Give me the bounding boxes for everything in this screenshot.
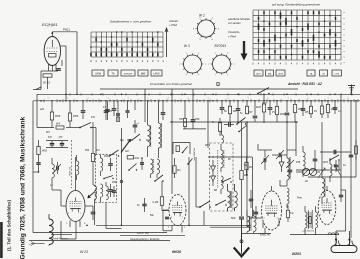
wire y230 stub bbox=[162, 210, 164, 231]
resistor R2 bbox=[51, 101, 53, 112]
cap C30 at V5 bbox=[339, 194, 343, 196]
wire x77 down bbox=[76, 32, 78, 95]
switch lever S8 bbox=[110, 150, 119, 156]
antenna symbol top right bbox=[351, 85, 353, 94]
output transformer core bbox=[307, 210, 309, 229]
svg-text:MW: MW bbox=[141, 72, 146, 76]
stub x230 bbox=[229, 101, 231, 106]
svg-text:7: 7 bbox=[227, 75, 228, 77]
svg-text:W4: W4 bbox=[56, 122, 60, 126]
svg-text:a22: a22 bbox=[40, 108, 45, 111]
svg-text:P601: P601 bbox=[63, 28, 70, 32]
svg-text:UKW: UKW bbox=[95, 72, 102, 76]
svg-text:zum UKW-Teil: zum UKW-Teil bbox=[194, 147, 196, 161]
antenna caption bbox=[51, 233, 72, 235]
coil L16 bbox=[95, 186, 97, 199]
T1 primary coil bbox=[100, 155, 102, 158]
switch S9 bbox=[222, 178, 231, 182]
stub x238 bbox=[237, 101, 239, 108]
svg-text:1: 1 bbox=[287, 98, 288, 100]
switch S4 levers bbox=[132, 134, 140, 140]
capacitor C34 bbox=[112, 190, 116, 192]
svg-text:7: 7 bbox=[215, 53, 216, 55]
output transformer T4 bbox=[305, 212, 307, 228]
phase splitter coil T3 primary bbox=[322, 178, 324, 197]
svg-text:P60: P60 bbox=[112, 181, 117, 184]
bottom wire 3 bbox=[29, 240, 170, 242]
svg-text:TA: TA bbox=[111, 72, 114, 76]
svg-text:2: 2 bbox=[171, 217, 172, 219]
detector coil L14 bbox=[222, 135, 224, 143]
svg-text:Vorwärts-: Vorwärts- bbox=[228, 30, 240, 34]
svg-text:Gegenkopplung v. Endstufe: Gegenkopplung v. Endstufe bbox=[130, 238, 160, 241]
cap C25 bbox=[249, 198, 253, 200]
stub x163 bbox=[162, 101, 164, 112]
switch S5 top lever bbox=[258, 88, 269, 94]
tone switch S7 bbox=[330, 155, 339, 160]
capacitor C10 bbox=[254, 101, 256, 115]
svg-text:LANG: LANG bbox=[153, 73, 159, 76]
fuse bead bbox=[240, 240, 243, 243]
loop lever bbox=[183, 147, 188, 153]
svg-text:W05: W05 bbox=[42, 150, 48, 153]
tube V4 envelope EABC80 bbox=[262, 191, 282, 230]
coil L8 bbox=[228, 191, 231, 208]
trimmer C27 bbox=[278, 153, 280, 157]
wire x121 down bbox=[121, 128, 123, 225]
wafer W3 bbox=[184, 55, 202, 73]
svg-text:1: 1 bbox=[327, 98, 328, 100]
svg-text:1: 1 bbox=[87, 98, 88, 100]
svg-text:4: 4 bbox=[193, 28, 194, 30]
wire h150 right bbox=[287, 149, 296, 151]
coil L12 bbox=[287, 188, 289, 204]
wire stub bbox=[61, 60, 63, 66]
svg-text:FM: FM bbox=[96, 149, 99, 152]
svg-text:7: 7 bbox=[215, 75, 216, 77]
wire x204 down bbox=[203, 211, 205, 225]
capacitor C21 bbox=[113, 101, 115, 108]
tuning gang arrow bbox=[121, 140, 130, 153]
svg-text:auf ausg. Gerätestellung gezei: auf ausg. Gerätestellung gezeichnet bbox=[272, 3, 320, 7]
wire x145 top bbox=[144, 89, 146, 122]
svg-text:50n: 50n bbox=[150, 214, 155, 217]
svg-text:W 22: W 22 bbox=[43, 81, 50, 85]
svg-text:W03: W03 bbox=[280, 112, 286, 116]
res R21 bbox=[246, 157, 248, 162]
T1 primary cap bbox=[108, 163, 113, 165]
UKW box boundary bbox=[71, 140, 73, 188]
svg-text:7: 7 bbox=[179, 64, 180, 66]
resistor R25 bbox=[287, 205, 289, 210]
capacitor C8 bbox=[192, 89, 194, 119]
ratio det coil L7 bbox=[221, 176, 223, 189]
resistor W22 bbox=[43, 74, 52, 77]
svg-text:4: 4 bbox=[212, 18, 213, 20]
terminal arrow bbox=[36, 87, 41, 90]
pushbutton Langwelle bbox=[151, 70, 162, 76]
wire x257 bbox=[256, 176, 258, 218]
wire h177 bbox=[308, 176, 356, 178]
cap C29 right rail bbox=[350, 149, 352, 151]
capacitor C3 bbox=[95, 128, 97, 155]
capacitor C22 near tube V2 bbox=[91, 211, 96, 213]
svg-text:6HO8: 6HO8 bbox=[172, 250, 181, 254]
svg-text:Schalterebene v. vorn gesehen: Schalterebene v. vorn gesehen bbox=[110, 20, 152, 24]
wire x196 down bbox=[195, 157, 197, 207]
switch matrix S1 contacts bbox=[95, 38, 97, 42]
capacitor C33 bbox=[36, 162, 40, 164]
svg-text:AM: AM bbox=[125, 150, 129, 153]
wire x208 bbox=[207, 101, 209, 148]
wire x296 down bbox=[295, 122, 297, 150]
speaker wire bbox=[290, 234, 339, 236]
svg-text:EC(H)81: EC(H)81 bbox=[42, 22, 58, 27]
resistor R10 bbox=[276, 101, 278, 106]
svg-text:Grundig 7025, 7058 und 7068, M: Grundig 7025, 7058 und 7068, Musikschran… bbox=[20, 116, 27, 259]
ground arrow bbox=[241, 219, 243, 254]
svg-text:1: 1 bbox=[207, 98, 208, 100]
button CE bbox=[320, 70, 328, 76]
wire x128 seg bbox=[127, 101, 129, 110]
capacitor C20 bbox=[105, 101, 107, 110]
svg-text:BV7043: BV7043 bbox=[215, 44, 227, 48]
resistor R8 bbox=[241, 122, 243, 170]
wire V5 connections bbox=[317, 204, 319, 210]
wire x356 bbox=[355, 101, 357, 177]
wire x90 down bbox=[92, 122, 94, 153]
svg-text:W22: W22 bbox=[135, 158, 140, 160]
feedback loop box bbox=[173, 143, 190, 155]
wire h170 bbox=[296, 169, 341, 171]
trimmer C24 bbox=[264, 150, 266, 157]
left page edge mark bbox=[0, 222, 3, 258]
svg-text:2: 2 bbox=[68, 213, 69, 215]
T1 secondary cap bbox=[108, 189, 113, 191]
resistor R30 box bbox=[127, 156, 133, 159]
coil L15 bbox=[76, 155, 78, 161]
bus tick marks upper bbox=[69, 93, 71, 95]
svg-text:7: 7 bbox=[205, 64, 206, 66]
svg-text:1: 1 bbox=[167, 98, 168, 100]
diode D1 bbox=[211, 166, 216, 171]
resistor R5 bbox=[91, 154, 94, 162]
svg-text:1: 1 bbox=[127, 98, 128, 100]
wire x345 down bbox=[345, 177, 347, 238]
svg-text:W 3: W 3 bbox=[184, 44, 190, 48]
bottom return wire 2 bbox=[33, 232, 167, 234]
resistor R6 0.1M bbox=[161, 181, 163, 197]
wire x322 up bbox=[321, 122, 323, 170]
svg-text:P25: P25 bbox=[296, 161, 301, 164]
switch lever S12 bbox=[200, 201, 210, 207]
cap C28 bbox=[334, 164, 338, 166]
wire x345 bbox=[345, 190, 347, 231]
wire x265 horiz bbox=[258, 149, 272, 151]
tube V2 pins bbox=[75, 157, 77, 191]
svg-text:Ferrit-Antenne: Ferrit-Antenne bbox=[53, 237, 69, 240]
tube V3 pins bbox=[177, 193, 179, 196]
svg-text:7: 7 bbox=[208, 64, 209, 66]
svg-text:4: 4 bbox=[199, 39, 200, 41]
svg-text:KURZW: KURZW bbox=[124, 74, 133, 76]
pushbutton UKW bbox=[92, 70, 104, 76]
bottom wire 3a bbox=[120, 235, 185, 237]
bus tick marks bbox=[43, 99, 45, 102]
dial lamp loop bbox=[105, 203, 107, 229]
IF transformer T2 primary bbox=[151, 159, 154, 174]
switch S10 lever bbox=[129, 164, 137, 171]
variable block pair bbox=[302, 168, 309, 175]
capacitor C31 bbox=[142, 203, 146, 205]
direction arrow down bbox=[243, 41, 245, 55]
tube V5 envelope EL84 bbox=[318, 191, 336, 225]
trim capacitor C4 bbox=[56, 166, 58, 171]
capacitor C23 bbox=[165, 216, 169, 218]
pushbutton Kurzwelle bbox=[121, 70, 135, 76]
svg-text:sämtliche Schalter: sämtliche Schalter bbox=[228, 17, 250, 21]
switch matrix S2 grid bbox=[252, 10, 254, 60]
lever S13 bbox=[188, 159, 193, 165]
wire x251 bbox=[250, 190, 252, 194]
button AUT bbox=[254, 70, 263, 76]
svg-text:7: 7 bbox=[331, 215, 332, 217]
res R22 bbox=[354, 146, 357, 154]
wire to tube V2 bbox=[52, 189, 61, 191]
switch lever S3 bbox=[80, 123, 91, 128]
tube V1 envelope bbox=[44, 37, 60, 66]
wire x247 bbox=[246, 122, 248, 157]
svg-text:7: 7 bbox=[182, 217, 183, 219]
grid wire cap row bbox=[320, 151, 351, 153]
tube V2 envelope ECC85 bbox=[66, 191, 85, 222]
speaker LS1 terminals bbox=[335, 231, 337, 246]
matrix S2 junction dots bbox=[263, 20, 265, 22]
trimmer cap C5b bbox=[117, 101, 119, 113]
capacitor C11 bbox=[286, 101, 288, 112]
tube V4 cathode wires bbox=[264, 228, 266, 233]
treble cap C13 bbox=[288, 169, 293, 171]
svg-text:W 23: W 23 bbox=[80, 250, 88, 254]
stub x222 bbox=[221, 101, 223, 107]
svg-text:1: 1 bbox=[247, 98, 248, 100]
svg-text:W47: W47 bbox=[262, 102, 268, 105]
coil block L13 bbox=[330, 164, 332, 176]
resistor R26 bbox=[174, 158, 176, 165]
svg-text:500: 500 bbox=[231, 216, 236, 220]
svg-text:470: 470 bbox=[91, 116, 96, 119]
svg-text:2: 2 bbox=[264, 218, 265, 220]
wafer BV7043 bbox=[213, 55, 231, 73]
resistor R11 bbox=[294, 101, 296, 104]
cathode wires bbox=[48, 64, 50, 71]
wire h218 bbox=[250, 217, 262, 219]
arrow trimmer bbox=[318, 168, 325, 178]
svg-text:CE: CE bbox=[322, 74, 326, 76]
pushbutton Mittelwelle bbox=[138, 70, 148, 76]
svg-text:AUT: AUT bbox=[256, 73, 261, 76]
detector can bbox=[210, 143, 234, 211]
svg-text:40p: 40p bbox=[120, 139, 125, 142]
bottom wire junctions bbox=[121, 225, 123, 227]
svg-text:W25: W25 bbox=[323, 161, 329, 164]
wire h129 bbox=[183, 128, 206, 130]
wire x37 bbox=[36, 94, 38, 127]
svg-text:7: 7 bbox=[186, 53, 187, 55]
coil L9 bbox=[235, 191, 238, 208]
svg-text:zum Netzteil: zum Netzteil bbox=[301, 230, 315, 233]
tube V3 envelope EABC80 bbox=[169, 195, 186, 226]
svg-text:7: 7 bbox=[186, 75, 187, 77]
AF coil L10 bbox=[303, 152, 305, 170]
svg-text:W05: W05 bbox=[73, 114, 79, 118]
wire mid bus bbox=[170, 121, 298, 123]
capacitor C1 bbox=[56, 68, 61, 70]
svg-text:+ Pfeil: + Pfeil bbox=[228, 35, 236, 39]
svg-text:Ton: Ton bbox=[290, 212, 295, 215]
diode D3 bbox=[140, 162, 144, 164]
button TA2 bbox=[307, 70, 315, 76]
bus wire top bbox=[100, 88, 298, 90]
switch matrix S2 contacts bbox=[258, 17, 260, 20]
wire anode to HT bbox=[51, 32, 53, 37]
tube V2 pointer arrow bbox=[89, 192, 96, 198]
svg-text:0,1M: 0,1M bbox=[153, 200, 159, 204]
T1 secondary coil bbox=[101, 184, 103, 197]
IF output transformer bbox=[247, 216, 250, 232]
svg-text:7: 7 bbox=[198, 53, 199, 55]
res R23 bbox=[340, 122, 342, 128]
tube V2 base box bbox=[60, 221, 62, 239]
resistor R24 bbox=[219, 114, 221, 123]
svg-text:H48: H48 bbox=[195, 118, 200, 121]
tone cap C14 bbox=[313, 158, 318, 160]
left rail bbox=[32, 101, 34, 233]
bus wire heater bbox=[33, 100, 360, 102]
resistor R12 bbox=[327, 101, 329, 104]
T2 switch lever bbox=[155, 175, 163, 181]
svg-text:+ Pfeil: + Pfeil bbox=[169, 23, 177, 27]
wire x172 bbox=[171, 89, 173, 122]
wire h186 bbox=[280, 185, 287, 187]
switch levers S11 bbox=[237, 118, 246, 125]
padder caps C7 bbox=[133, 124, 138, 126]
tall coil L11 bbox=[286, 146, 288, 158]
T1 switch bbox=[104, 176, 113, 179]
resistor R4 horizontal bbox=[37, 127, 54, 129]
resistor R7 bbox=[184, 101, 186, 118]
IF transformer T2 secondary bbox=[157, 159, 160, 174]
diode D2 bbox=[211, 176, 216, 181]
svg-text:7: 7 bbox=[277, 218, 278, 220]
L8 L9 core bbox=[229, 191, 231, 208]
wire x335 down to V5 bbox=[334, 114, 336, 122]
more bus stubs right bbox=[302, 101, 304, 108]
svg-text:W203: W203 bbox=[292, 252, 301, 256]
bus junction dots bbox=[40, 100, 42, 102]
up arrow top right bbox=[350, 92, 352, 94]
switch S6 bbox=[216, 200, 226, 205]
bus wire B+ bbox=[37, 93, 360, 95]
svg-text:+: + bbox=[29, 243, 31, 247]
capacitor C2 bbox=[82, 101, 84, 110]
matrix S2 long contacts bbox=[258, 23, 260, 29]
coil L17 bbox=[106, 186, 108, 200]
svg-text:7: 7 bbox=[227, 53, 228, 55]
trimmer cap C5a bbox=[107, 101, 109, 109]
svg-text:UKW-Teil: UKW-Teil bbox=[69, 166, 71, 176]
IF transformer T1 can bbox=[96, 155, 117, 203]
wire x252 vertical bbox=[251, 122, 253, 157]
svg-text:H47: H47 bbox=[179, 118, 184, 121]
button LTW bbox=[332, 70, 342, 76]
wafer W2 bbox=[197, 20, 214, 37]
oscillator coil L5 bbox=[158, 101, 160, 123]
bottom return wire 1 bbox=[96, 224, 251, 226]
svg-text:(1. Teil des Schaltbildes): (1. Teil des Schaltbildes) bbox=[7, 200, 12, 251]
drive arrow up bbox=[166, 29, 168, 57]
wire x247 ext bbox=[246, 122, 248, 227]
switch matrix S1 grid bbox=[90, 32, 92, 57]
capacitor C32 bbox=[228, 122, 230, 127]
svg-text:1: 1 bbox=[47, 98, 48, 100]
svg-text:MA: MA bbox=[268, 73, 272, 76]
button MA bbox=[266, 70, 274, 76]
svg-text:von außen: von außen bbox=[228, 21, 241, 25]
resistor R9 bbox=[263, 94, 265, 103]
terminal P60 bbox=[120, 180, 123, 183]
wire x135 bbox=[134, 101, 136, 110]
ferrite antenna coil L3 bbox=[48, 214, 50, 219]
stub x270 bbox=[269, 101, 271, 107]
svg-text:7: 7 bbox=[234, 64, 235, 66]
diode D4 bbox=[279, 162, 284, 167]
ratio det coil L6 bbox=[221, 150, 223, 168]
coupling cap C12 bbox=[295, 150, 297, 156]
resistor R3 bbox=[69, 101, 71, 113]
wire h157 bbox=[208, 156, 252, 158]
button UKW2 bbox=[276, 70, 285, 76]
wire x252b bbox=[252, 157, 254, 218]
svg-text:W47: W47 bbox=[256, 105, 262, 109]
svg-text:EABC 80: EABC 80 bbox=[260, 233, 271, 236]
svg-text:P04: P04 bbox=[85, 149, 90, 152]
oscillator coil L4 bbox=[147, 101, 149, 125]
coil core dashes bbox=[217, 150, 219, 188]
svg-text:7: 7 bbox=[198, 75, 199, 77]
resistor R13 bbox=[321, 101, 323, 106]
svg-text:W05: W05 bbox=[55, 114, 61, 118]
volume pot P1 bbox=[289, 157, 291, 168]
T4 resistor bbox=[309, 217, 312, 224]
pushbutton TA bbox=[108, 70, 118, 76]
svg-text:4: 4 bbox=[212, 39, 213, 41]
stub x247 r bbox=[246, 101, 248, 106]
wire left branch bbox=[40, 71, 42, 87]
resistor R20 bbox=[100, 208, 102, 215]
wire h194 bbox=[313, 193, 322, 195]
svg-text:Ansicht · R41 E81 · A2: Ansicht · R41 E81 · A2 bbox=[287, 82, 322, 86]
svg-text:Umschalter von hinten gesehen: Umschalter von hinten gesehen bbox=[150, 82, 193, 86]
svg-text:4: 4 bbox=[199, 18, 200, 20]
wire x287 v bbox=[286, 122, 288, 146]
svg-text:Rest: Rest bbox=[297, 196, 302, 199]
coil L2 antenna input bbox=[51, 158, 53, 164]
cap C26 bbox=[254, 211, 258, 213]
wire x351 right rail bbox=[350, 101, 352, 238]
wire x341 bbox=[340, 94, 342, 170]
svg-text:4: 4 bbox=[218, 28, 219, 30]
